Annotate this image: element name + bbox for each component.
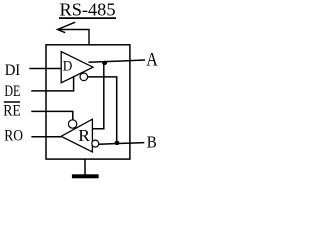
driver inverting output bubble: [80, 73, 88, 81]
svg-text:RO: RO: [4, 128, 23, 145]
svg-text:DI: DI: [5, 62, 21, 79]
wire DI: [29, 68, 61, 70]
node junction dot on A: [102, 61, 107, 65]
wire net A vertical to receiver: [92, 62, 103, 129]
ground: [84, 159, 86, 174]
svg-text:RS-485: RS-485: [60, 0, 116, 19]
driver op-amp triangle D: [61, 52, 93, 83]
wire RE: [31, 111, 73, 120]
receiver enable bubble: [68, 120, 76, 128]
svg-text:D: D: [63, 59, 73, 75]
title underline: [59, 17, 116, 19]
svg-text:R: R: [78, 126, 90, 145]
svg-text:A: A: [146, 50, 158, 71]
wire DE: [31, 76, 73, 91]
node junction dot on B: [115, 141, 120, 145]
svg-text:B: B: [147, 133, 157, 152]
wire RO: [31, 136, 61, 138]
receiver op-amp triangle R: [61, 119, 92, 152]
annotation arrow to title: [58, 22, 90, 45]
wire net A horizontal: [89, 60, 146, 62]
wire net B from driver bubble: [88, 77, 117, 143]
wire net B horizontal: [99, 143, 145, 145]
svg-text:DE: DE: [4, 83, 20, 100]
svg-text:RE: RE: [3, 103, 21, 120]
receiver inverting input bubble: [92, 140, 99, 147]
IC box: [46, 45, 130, 159]
RE overline: [4, 101, 20, 103]
